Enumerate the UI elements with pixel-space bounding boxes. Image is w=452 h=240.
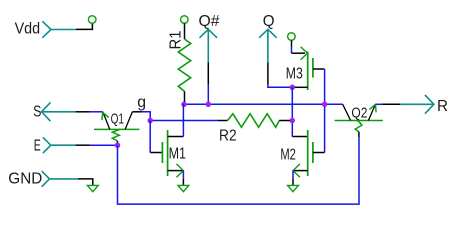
svg-text:Q1: Q1 bbox=[111, 110, 124, 127]
wire main net (R1 bottom to Q2) bbox=[184, 103, 343, 105]
svg-text:R2: R2 bbox=[219, 128, 237, 145]
ground (GND port) bbox=[87, 185, 98, 191]
wire Vdd to terminal bbox=[76, 23, 92, 29]
node junction R1/M1 drain bbox=[181, 102, 187, 108]
svg-text:E: E bbox=[34, 138, 41, 155]
wire Q to M3 drain bbox=[268, 62, 292, 87]
port R bbox=[400, 95, 448, 115]
wire M3 gate to M2 gate bbox=[324, 69, 326, 153]
wire M3 drain to M2 drain bbox=[291, 87, 293, 136]
resistor R2 bbox=[218, 114, 290, 145]
wire S to Q1 bbox=[76, 111, 103, 113]
svg-text:Q2: Q2 bbox=[351, 105, 367, 122]
svg-text:Q: Q bbox=[263, 13, 275, 30]
svg-text:M3: M3 bbox=[286, 65, 303, 82]
port S bbox=[33, 102, 76, 121]
wire M1 drain up bbox=[182, 104, 184, 136]
svg-text:M2: M2 bbox=[280, 146, 296, 163]
svg-text:g: g bbox=[137, 94, 146, 111]
node junction M3 drain / Q bbox=[290, 85, 296, 91]
wire M1 source to ground bbox=[182, 171, 184, 186]
port Q# bbox=[199, 13, 220, 62]
ground (M2) bbox=[288, 185, 299, 191]
node junction g/R2/M1 gate bbox=[147, 118, 153, 124]
svg-text:M1: M1 bbox=[169, 146, 186, 163]
terminal circle (R1 top) bbox=[181, 16, 189, 24]
wire Q2 to R bbox=[375, 103, 400, 105]
svg-text:Vdd: Vdd bbox=[15, 21, 40, 38]
node junction Q# bbox=[206, 102, 212, 108]
wire g to R2 bbox=[150, 120, 217, 122]
node junction R2 right bbox=[290, 118, 296, 124]
port Vdd bbox=[15, 21, 76, 38]
wire E to junction bbox=[76, 144, 118, 146]
wire M2 source to ground bbox=[292, 171, 294, 186]
wire M3 source lead bbox=[292, 40, 306, 53]
transistor M2 bbox=[280, 130, 324, 177]
node junction gates / net bbox=[322, 102, 328, 108]
wire bottom rail bbox=[118, 137, 360, 204]
ground (M1) bbox=[178, 185, 189, 191]
wire Q# to net bbox=[207, 62, 209, 104]
transistor M3 bbox=[286, 47, 325, 90]
port GND bbox=[8, 170, 78, 187]
node g wire bbox=[132, 94, 150, 121]
wire M1 gate bbox=[150, 121, 162, 153]
svg-text:GND: GND bbox=[8, 170, 42, 187]
svg-text:R: R bbox=[437, 98, 448, 115]
transistor Q1 bbox=[94, 110, 139, 143]
node junction E/Q1 gate bbox=[115, 142, 121, 148]
wire GND to ground bbox=[78, 179, 93, 185]
svg-text:S: S bbox=[33, 104, 41, 121]
resistor R1 bbox=[167, 23, 190, 104]
terminal circle (Vdd) bbox=[88, 16, 96, 24]
port E bbox=[34, 137, 76, 154]
transistor M1 bbox=[162, 130, 186, 177]
terminal circle (M3 top) bbox=[288, 33, 296, 41]
svg-text:R1: R1 bbox=[167, 30, 184, 49]
port Q bbox=[259, 13, 277, 62]
svg-text:Q#: Q# bbox=[199, 13, 220, 30]
transistor Q2 bbox=[335, 104, 383, 137]
